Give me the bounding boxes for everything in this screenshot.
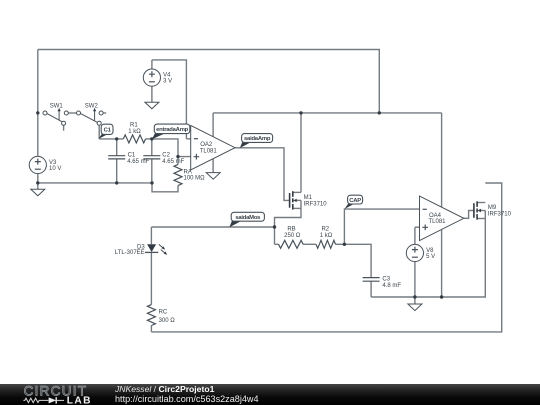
svg-text:SW1: SW1	[50, 104, 64, 110]
svg-text:OA4: OA4	[429, 213, 442, 219]
svg-text:LTL-307EE: LTL-307EE	[115, 250, 145, 256]
svg-text:4.65 mF: 4.65 mF	[162, 159, 184, 165]
svg-text:saidaAmp: saidaAmp	[244, 136, 271, 142]
svg-text:R2: R2	[321, 227, 329, 233]
svg-text:RC: RC	[159, 309, 168, 315]
svg-text:SW2: SW2	[85, 104, 99, 110]
svg-text:RA: RA	[184, 169, 192, 175]
svg-text:4.65 mF: 4.65 mF	[127, 159, 149, 165]
svg-text:1 kΩ: 1 kΩ	[128, 129, 141, 135]
svg-text:R1: R1	[130, 123, 138, 129]
svg-text:M9: M9	[488, 205, 497, 211]
svg-text:4.8 mF: 4.8 mF	[382, 283, 401, 289]
svg-text:C1: C1	[128, 152, 136, 158]
svg-text:IRF3710: IRF3710	[488, 212, 512, 218]
svg-text:100 MΩ: 100 MΩ	[184, 176, 206, 182]
svg-text:IRF3710: IRF3710	[304, 202, 328, 208]
svg-text:250 Ω: 250 Ω	[284, 233, 301, 239]
svg-text:C1: C1	[104, 128, 112, 134]
svg-text:300 Ω: 300 Ω	[159, 318, 176, 324]
svg-text:1 kΩ: 1 kΩ	[320, 233, 333, 239]
svg-text:saidaMos: saidaMos	[235, 215, 261, 221]
svg-text:entradaAmp: entradaAmp	[156, 127, 189, 133]
svg-text:OA2: OA2	[200, 142, 213, 148]
svg-text:TL081: TL081	[429, 219, 447, 225]
svg-text:3 V: 3 V	[163, 78, 172, 84]
svg-text:C3: C3	[382, 276, 390, 282]
svg-text:5 V: 5 V	[426, 254, 435, 260]
svg-text:LAB: LAB	[67, 396, 92, 405]
svg-text:M1: M1	[304, 195, 313, 201]
svg-text:CAP: CAP	[349, 198, 361, 204]
svg-text:TL081: TL081	[200, 149, 218, 155]
svg-text:10 V: 10 V	[49, 166, 61, 172]
svg-text:C2: C2	[162, 152, 170, 158]
svg-text:RB: RB	[287, 227, 295, 233]
